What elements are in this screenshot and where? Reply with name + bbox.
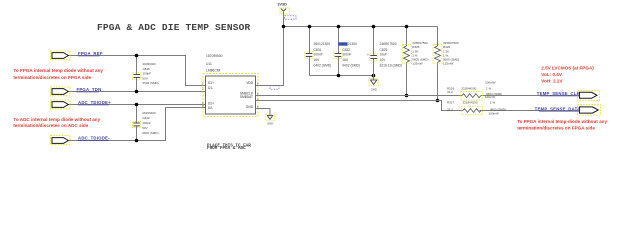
svg-text:D1+: D1+ xyxy=(208,81,214,85)
capacitor C831 xyxy=(305,27,331,76)
svg-text:16V: 16V xyxy=(342,58,349,62)
svg-text:termination/discretes on FPGA: termination/discretes on FPGA side xyxy=(13,75,91,80)
annotation red note ADC side xyxy=(13,117,100,128)
svg-text:termination/discretes on FPGA: termination/discretes on FPGA side xyxy=(517,126,595,131)
svg-text:50V: 50V xyxy=(142,126,147,130)
node junction R328 SMBCLK xyxy=(405,94,409,98)
svg-text:10uF: 10uF xyxy=(380,53,388,57)
node junction C840 top xyxy=(135,103,139,107)
op IC U11 LM86 xyxy=(202,54,259,117)
svg-text:termination/discretes on ADC s: termination/discretes on ADC side xyxy=(13,123,88,128)
svg-text:100mW: 100mW xyxy=(485,80,496,84)
capacitor C840 xyxy=(132,105,158,141)
svg-text:100mW: 100mW xyxy=(485,95,496,99)
ground under C829 xyxy=(369,79,378,92)
svg-text:33.2: 33.2 xyxy=(447,108,453,112)
svg-text:125mW: 125mW xyxy=(443,62,454,66)
svg-text:0402 (SMD): 0402 (SMD) xyxy=(342,64,360,68)
svg-text:0603 (SMD): 0603 (SMD) xyxy=(143,81,159,85)
svg-text:SMBDAT: SMBDAT xyxy=(240,95,253,99)
svg-text:GND: GND xyxy=(246,105,254,109)
svg-text:TEMP_SENSE_CLK: TEMP_SENSE_CLK xyxy=(537,91,581,96)
node junction C836 top xyxy=(135,54,139,58)
svg-text:260121300: 260121300 xyxy=(314,42,331,46)
svg-text:To FPGA internal temp diode wi: To FPGA internal temp diode without any xyxy=(13,68,103,73)
node junction C836 bottom xyxy=(135,90,139,94)
svg-text:8: 8 xyxy=(257,82,259,86)
svg-text:FPGA_TDN: FPGA_TDN xyxy=(77,87,102,92)
node junction bottom C832 xyxy=(337,74,341,78)
wire SMBDAT to port xyxy=(480,110,580,112)
node junction rail C829 xyxy=(372,25,376,29)
marker blue dashed vdd xyxy=(270,86,279,89)
svg-text:C831: C831 xyxy=(314,48,322,52)
wire cap bottom rail xyxy=(310,75,374,77)
svg-text:26399400: 26399400 xyxy=(143,62,157,66)
ground IC xyxy=(266,114,275,125)
svg-text:+: + xyxy=(367,53,369,57)
svg-text:100mW: 100mW xyxy=(489,112,500,116)
wire FPGA_TDN to pin2 xyxy=(69,91,206,93)
svg-text:VDD: VDD xyxy=(246,81,253,85)
capacitor C832 xyxy=(334,27,360,76)
resistor R316 xyxy=(447,80,502,100)
wire VDD feed xyxy=(256,27,284,86)
svg-text:ADC_TDIODE-: ADC_TDIODE- xyxy=(78,135,110,140)
svg-text:125mW: 125mW xyxy=(412,62,423,66)
svg-text:3V3D: 3V3D xyxy=(277,2,287,6)
svg-text:FPGA & ADC DIE TEMP SENSOR: FPGA & ADC DIE TEMP SENSOR xyxy=(97,22,251,33)
svg-text:C840: C840 xyxy=(142,116,150,120)
svg-text:2: 2 xyxy=(202,87,204,91)
svg-text:33.2: 33.2 xyxy=(447,90,453,94)
wire SMBDAT xyxy=(256,101,464,111)
svg-text:50V: 50V xyxy=(143,76,148,80)
svg-text:C832: C832 xyxy=(342,48,350,52)
svg-text:3216-18 (SMD): 3216-18 (SMD) xyxy=(380,64,403,68)
annotation red note FPGA side right xyxy=(517,119,607,131)
svg-text:2.5V LVCMOS (at FPGA): 2.5V LVCMOS (at FPGA) xyxy=(541,65,594,70)
power 3V3D xyxy=(277,2,289,14)
svg-text:C836: C836 xyxy=(143,67,151,71)
marker blue dashed top xyxy=(285,16,297,19)
svg-text:321844200: 321844200 xyxy=(463,101,478,105)
svg-text:0402 (SMD): 0402 (SMD) xyxy=(314,64,332,68)
port ADC_TDIODE- xyxy=(51,135,111,144)
node junction rail R328 xyxy=(405,25,409,29)
svg-text:LM86CIM: LM86CIM xyxy=(206,69,221,73)
svg-text:D2+: D2+ xyxy=(208,102,214,106)
svg-text:GND: GND xyxy=(267,122,273,126)
node junction bottom C829 xyxy=(372,74,376,78)
svg-text:321844200: 321844200 xyxy=(461,87,476,91)
port FPGA_REF xyxy=(51,51,103,60)
svg-text:10V: 10V xyxy=(380,58,387,62)
wire IC GND xyxy=(256,109,271,116)
svg-text:R317: R317 xyxy=(447,101,455,105)
annotation red note LVCMOS levels xyxy=(541,65,594,83)
resistor R317 xyxy=(447,101,506,116)
annotation placement note xyxy=(207,143,251,150)
svg-text:100pF: 100pF xyxy=(142,121,151,125)
svg-text:GND: GND xyxy=(371,87,377,91)
port TEMP_SENSE_DATA xyxy=(535,105,601,115)
wire SMBCLK xyxy=(256,95,463,97)
svg-text:TEMP_SENSE_DATA: TEMP_SENSE_DATA xyxy=(535,107,581,112)
node junction rail C831 xyxy=(308,25,312,29)
svg-text:260121300: 260121300 xyxy=(340,42,357,46)
svg-text:1 %: 1 % xyxy=(490,101,496,105)
svg-text:1: 1 xyxy=(202,82,204,86)
node junction rail C832 xyxy=(337,25,341,29)
wire 3V3D rail xyxy=(284,26,438,28)
svg-text:100nF: 100nF xyxy=(314,53,323,57)
svg-text:VoH: 2.1V: VoH: 2.1V xyxy=(541,79,563,84)
svg-text:100nF: 100nF xyxy=(342,53,351,57)
svg-text:FPGA_REF: FPGA_REF xyxy=(78,51,103,56)
svg-text:187099500: 187099500 xyxy=(206,54,223,58)
annotation red note FPGA side xyxy=(13,68,103,80)
wire ADC_TDIODE- to pin4 xyxy=(69,108,206,141)
svg-text:246R07500: 246R07500 xyxy=(380,42,397,46)
svg-text:VoL: 0.4V: VoL: 0.4V xyxy=(541,72,563,77)
wire SMBCLK to port xyxy=(481,95,580,97)
port ADC_TDIODE+ xyxy=(51,100,112,109)
node junction C840 bottom xyxy=(135,139,139,143)
svg-text:U11: U11 xyxy=(206,62,212,66)
capacitor C836 xyxy=(133,56,159,92)
node junction R326 SMBDAT xyxy=(436,99,440,103)
svg-text:D1-: D1- xyxy=(208,86,213,90)
svg-text:26399400: 26399400 xyxy=(142,111,156,115)
svg-text:FROM FPGA & ADC: FROM FPGA & ADC xyxy=(207,146,246,151)
wire ADC_TDIODE+ to pin3 xyxy=(69,104,206,106)
svg-text:1 %: 1 % xyxy=(486,87,492,91)
svg-text:To FPGA internal temp-diode wi: To FPGA internal temp-diode without any xyxy=(517,119,607,124)
svg-text:0603 (SMD): 0603 (SMD) xyxy=(142,131,158,135)
resistor R328 xyxy=(403,27,429,96)
svg-text:To ADC internal temp diode wit: To ADC internal temp diode without any xyxy=(13,117,100,122)
port FPGA_TDN xyxy=(51,87,102,96)
svg-text:ADC_TDIODE+: ADC_TDIODE+ xyxy=(78,100,111,105)
node junction rail power xyxy=(282,25,286,29)
wire power stem xyxy=(283,11,285,26)
svg-text:C829: C829 xyxy=(380,48,388,52)
port TEMP_SENSE_CLK xyxy=(537,90,600,100)
svg-text:16V: 16V xyxy=(314,58,321,62)
resistor R326 xyxy=(433,27,459,101)
wire FPGA_REF to pin1 xyxy=(69,56,206,86)
capacitor C829 polarized xyxy=(367,27,402,81)
svg-text:100pF: 100pF xyxy=(143,72,152,76)
svg-text:D2-: D2- xyxy=(208,106,213,110)
